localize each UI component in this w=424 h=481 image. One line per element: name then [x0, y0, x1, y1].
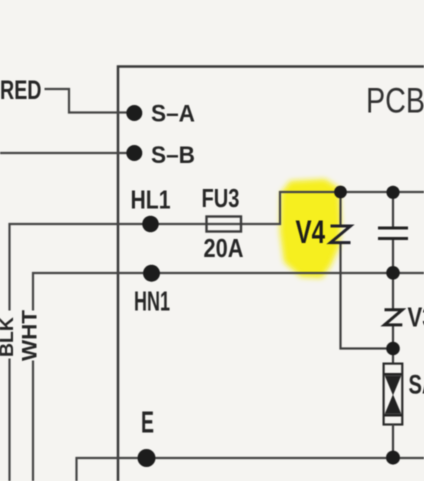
svg-text:FU3: FU3 [202, 183, 240, 213]
svg-text:PCB: PCB [366, 82, 424, 121]
svg-text:E: E [141, 405, 154, 440]
svg-text:HL1: HL1 [131, 185, 171, 215]
svg-text:S–B: S–B [151, 142, 195, 169]
svg-text:S–A: S–A [151, 101, 195, 128]
svg-text:BLK: BLK [0, 317, 18, 357]
svg-text:V3: V3 [408, 302, 424, 333]
svg-text:V4: V4 [296, 214, 326, 250]
svg-text:RED: RED [0, 75, 42, 105]
svg-text:HN1: HN1 [134, 286, 170, 317]
svg-text:20A: 20A [204, 233, 244, 263]
svg-text:SA: SA [409, 370, 424, 400]
svg-text:WHT: WHT [19, 310, 42, 361]
